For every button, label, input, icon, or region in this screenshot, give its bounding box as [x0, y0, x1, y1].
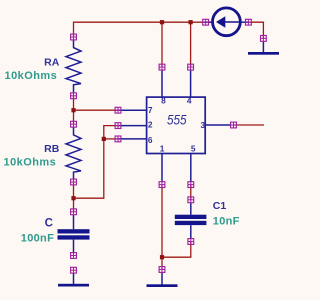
pin stub 3 [205, 124, 231, 126]
wire: pin 1 down to ground node [161, 185, 163, 258]
capacitor C lead bottom [73, 240, 75, 253]
current source stubs [204, 21, 248, 23]
pin marker current source right [246, 19, 252, 25]
junction node D (rail/pin8) [160, 20, 164, 24]
wire: ground node down [161, 257, 163, 269]
pin stub 2 [118, 125, 147, 127]
capacitor C1 lead bottom [190, 225, 192, 238]
junction node A (RA/RB/pin7) [71, 108, 75, 112]
wire: pin 4 drop from rail [190, 22, 192, 67]
junction node B (RB/C/pins2-6) [71, 196, 75, 200]
capacitor C lead top [73, 215, 75, 230]
wire: top VCC rail from RA top to current source [74, 22, 205, 37]
svg-text:1: 1 [160, 144, 165, 154]
pin marker pin 3 output [231, 122, 237, 128]
current source U2 circle [213, 8, 241, 36]
capacitor C1 lead top [190, 203, 192, 215]
resistor RB [66, 127, 81, 180]
svg-text:10kOhms: 10kOhms [4, 156, 57, 168]
current source arrow [216, 16, 239, 28]
pin stub 7 [118, 109, 147, 111]
pin marker 555 pin 7 [115, 107, 121, 113]
pin marker RB bottom [71, 179, 77, 185]
pin marker RA top [71, 34, 77, 40]
ground symbol 2 (below pin 1) [147, 272, 178, 287]
capacitor C plates [58, 229, 90, 239]
pin stub 1 [161, 154, 163, 183]
wire: node to pin 7 [74, 109, 120, 111]
wire: C1 bottom to ground node [162, 242, 191, 258]
svg-text:C: C [45, 218, 53, 230]
pin stub 8 [161, 70, 163, 98]
svg-text:100nF: 100nF [21, 233, 54, 245]
svg-text:10kOhms: 10kOhms [5, 70, 58, 82]
pin marker 555 pin 2 [115, 123, 121, 129]
wire: current source right to ground [248, 22, 263, 38]
pin marker 555 pin 6 [115, 136, 121, 142]
pin marker RA bottom [71, 93, 77, 99]
pin stub 5 [190, 154, 192, 183]
ground symbol 3 (top right) [248, 41, 279, 54]
junction node E (rail/pin4) [189, 20, 193, 24]
pin marker ground 1 [71, 267, 77, 273]
svg-text:10nF: 10nF [213, 216, 240, 228]
pin marker RB top [71, 121, 77, 127]
pin marker C1 bottom [188, 239, 194, 245]
wire: pin 2 to pin 6 to cap node [74, 126, 120, 199]
svg-text:8: 8 [161, 96, 166, 106]
op-amp/IC U1 555 box [147, 97, 206, 153]
wire: RB bottom to C top [73, 182, 75, 212]
svg-text:3: 3 [200, 120, 205, 130]
svg-text:RA: RA [44, 56, 60, 68]
svg-text:4: 4 [187, 96, 192, 106]
pin stub 6 [118, 138, 147, 140]
wire: pin 3 output [234, 124, 265, 126]
capacitor C1 plates [175, 215, 207, 225]
ground symbol 1 (below C) [58, 273, 89, 286]
pin marker 555 pin 5 [188, 182, 194, 188]
pin marker 555 pin 8 [159, 64, 165, 70]
pin marker C bottom [71, 253, 77, 259]
pin stub 4 [190, 70, 192, 98]
svg-text:6: 6 [148, 135, 153, 145]
svg-text:RB: RB [44, 143, 60, 155]
junction node C (pin2/pin6) [102, 137, 106, 141]
wire: pin 6 horizontal [104, 138, 119, 140]
pin marker 555 pin 1 [159, 182, 165, 188]
pin marker ground 3 [261, 36, 267, 42]
pin marker 555 pin 4 [188, 64, 194, 70]
wire: pin 5 to C1 top [190, 185, 192, 200]
wire: pin 8 drop from rail [161, 22, 163, 67]
pin marker current source left [203, 19, 209, 25]
svg-text:7: 7 [148, 105, 153, 115]
pin marker C top [71, 209, 77, 215]
svg-text:2: 2 [148, 119, 153, 129]
junction node F (pin1/C1/ground) [160, 255, 164, 259]
svg-text:C1: C1 [213, 200, 227, 212]
pin marker ground 2 [159, 267, 165, 273]
wire: RA bottom to RB top [73, 96, 75, 125]
svg-text:555: 555 [167, 113, 187, 128]
resistor RA [66, 40, 81, 93]
pin marker C1 top [188, 197, 194, 203]
svg-text:5: 5 [191, 144, 196, 154]
